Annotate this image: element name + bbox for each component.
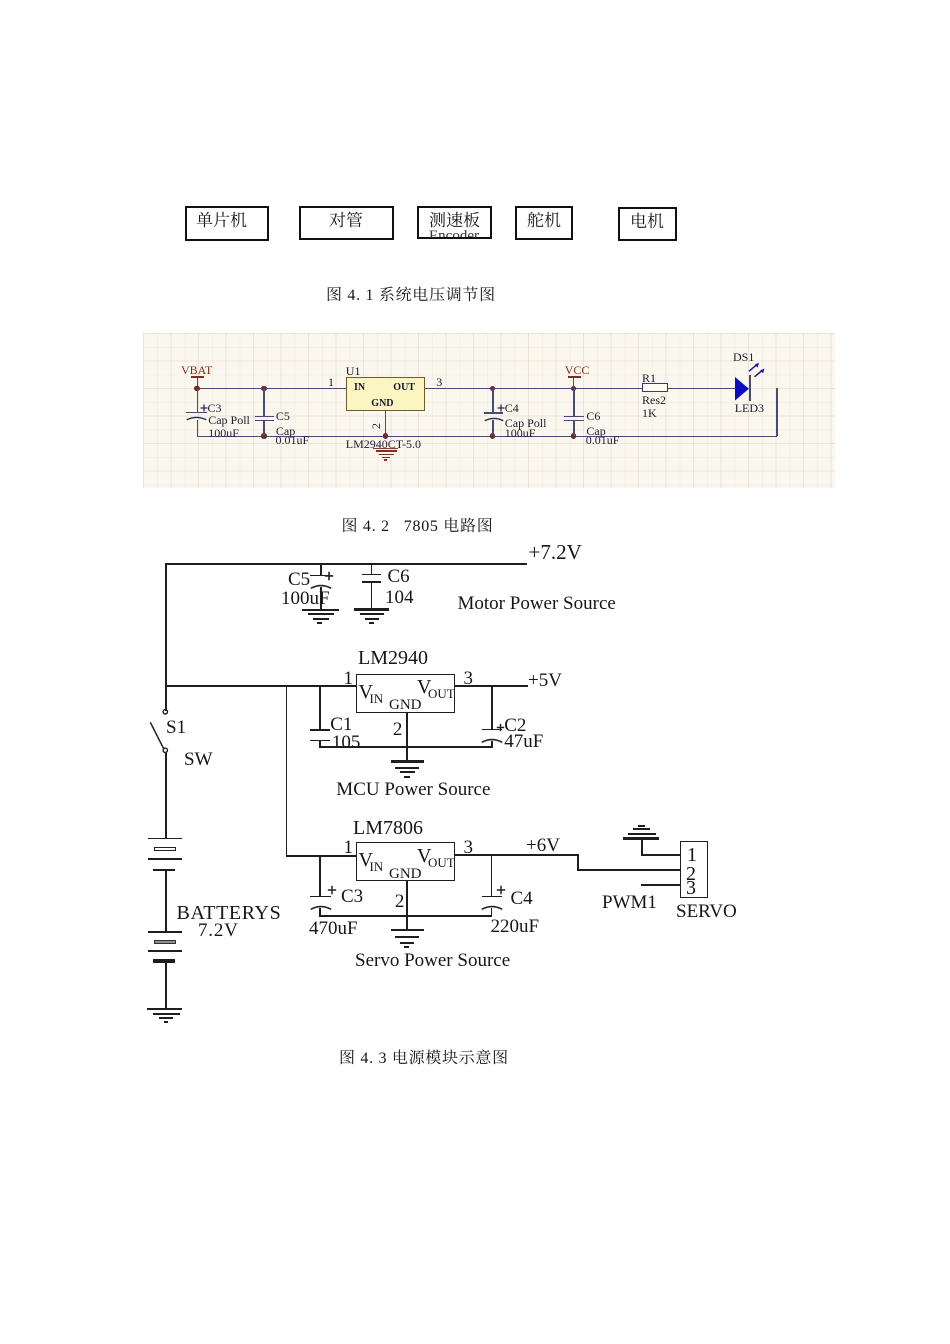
node pin2 bottom junction: [383, 433, 388, 438]
capacitor C4 polarized: [492, 388, 494, 413]
pin 3 label servo: [686, 878, 696, 898]
capacitor C1: [319, 687, 321, 730]
schematic background grid panel: [143, 333, 835, 488]
caption figure 4.3: [339, 1049, 509, 1065]
block box 舵机: [515, 206, 573, 240]
ground under C5: [302, 609, 338, 611]
pin 2 wire LM2940: [406, 713, 408, 761]
wire +7.2V top rail: [165, 563, 527, 565]
capacitor C6 (motor): [371, 563, 373, 574]
label +7.2V: [529, 542, 582, 563]
label Servo Power Source: [355, 951, 510, 970]
pin 1 label servo: [687, 845, 697, 865]
label PWM1: [602, 893, 657, 912]
wire +6V output: [455, 854, 579, 856]
battery BATTERYS 7.2V: [148, 838, 183, 840]
pin 3 label LM7806: [464, 838, 474, 857]
pin 2 wire: [385, 411, 386, 436]
LED DS1: [733, 351, 754, 363]
label Motor Power Source: [458, 594, 616, 613]
connector SERVO box: [680, 841, 708, 898]
block box 测速板 Encoder: [417, 206, 492, 239]
wire bottom return rail: [197, 436, 777, 437]
wire top rail VBAT to LED: [197, 388, 735, 389]
wire servo pin1: [641, 854, 680, 856]
node C4 bottom junction: [490, 433, 495, 438]
block box 单片机: [185, 206, 269, 241]
pin 3 label: [436, 376, 442, 388]
pin 2 label rotated: [370, 423, 382, 429]
capacitor C3 polarized: [197, 388, 199, 412]
wire servo input row: [286, 855, 356, 857]
label MCU Power Source: [336, 780, 490, 799]
capacitor C5 (motor): [320, 563, 322, 576]
pin 2 label servo: [686, 864, 696, 884]
pin 3 label LM2940: [464, 669, 474, 688]
node VCC junction: [571, 386, 576, 391]
resistor R1: [642, 372, 656, 384]
power port VCC: [565, 364, 590, 376]
wire MCU bottom rail: [319, 746, 493, 748]
pin 1 label: [328, 376, 334, 388]
pin 1 label LM7806: [344, 838, 354, 857]
pin 2 wire LM7806: [406, 881, 408, 930]
caption figure 4.1: [326, 286, 496, 302]
ground battery: [147, 1008, 182, 1010]
U1 value LM2940CT-5.0: [346, 438, 421, 450]
wire MCU input row: [165, 685, 356, 687]
ground under C6: [354, 608, 390, 610]
wire +5V output: [455, 685, 528, 687]
block box 对管: [299, 206, 394, 240]
regulator LM2940 box: [356, 674, 455, 713]
wire servo bottom rail: [319, 915, 492, 917]
regulator LM7806 box: [356, 842, 455, 881]
capacitor C3 (servo): [319, 856, 321, 896]
op-amp U1 regulator body: [346, 377, 425, 411]
caption figure 4.2: [342, 517, 494, 533]
block box 电机: [618, 207, 677, 241]
capacitor C4 (servo): [491, 856, 493, 896]
node C5 bottom junction: [261, 433, 266, 438]
wire left rail upper: [165, 563, 167, 711]
capacitor C2: [491, 687, 493, 730]
pin 1 label LM2940: [344, 669, 354, 688]
wire rail below switch: [165, 753, 167, 838]
node VBAT junction: [194, 386, 199, 391]
ground MCU: [391, 760, 424, 762]
capacitor C6: [573, 388, 575, 416]
node C5 top junction: [261, 386, 266, 391]
wire right loop vertical: [776, 388, 777, 436]
wire servo pin3 stub: [641, 884, 680, 886]
wire vertical drop to LM7806: [286, 685, 288, 856]
ground below U1: [376, 450, 398, 452]
capacitor C5: [263, 388, 265, 416]
ground inverted above servo pin1: [638, 825, 645, 827]
power port VBAT: [181, 364, 212, 376]
node C4 top junction: [490, 386, 495, 391]
node C6 bottom junction: [571, 433, 576, 438]
label SERVO: [676, 902, 737, 921]
switch S1: [148, 705, 174, 757]
ground servo: [391, 929, 424, 931]
